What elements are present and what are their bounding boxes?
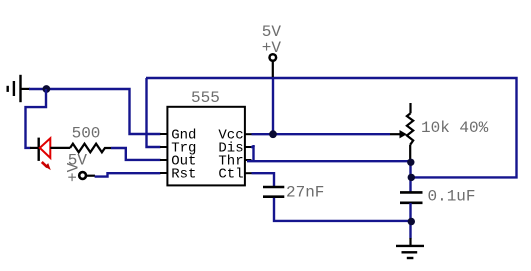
resistor R1 500 xyxy=(70,144,111,153)
svg-text:Rst: Rst xyxy=(171,167,196,183)
wire Thr to pot bottom xyxy=(247,160,408,162)
svg-text:10k 40%: 10k 40% xyxy=(421,119,489,137)
potentiometer R2 10k xyxy=(390,103,413,160)
voltage source terminal +V (top, 5V) xyxy=(270,54,277,77)
wire +V to Rst pin xyxy=(95,173,161,176)
wire Ctl to 27nF xyxy=(252,173,275,186)
svg-text:Ctl: Ctl xyxy=(218,167,243,183)
op-amp 555 IC U1 box xyxy=(160,107,252,186)
node Vcc junction dot xyxy=(269,130,277,138)
svg-text:555: 555 xyxy=(191,89,220,107)
wire 0.1uF bottom to ground xyxy=(409,203,411,239)
node bottom junction dot xyxy=(408,218,415,225)
svg-text:500: 500 xyxy=(72,124,101,142)
wire resistor to Out pin xyxy=(111,148,161,160)
node loop junction dot xyxy=(408,174,415,181)
wire 27nF bottom to ground node xyxy=(274,198,411,221)
svg-text:0.1uF: 0.1uF xyxy=(428,188,476,206)
wire Trg from top rail xyxy=(147,78,161,147)
node Thr junction dot xyxy=(407,159,414,166)
wire ground to Gnd pin xyxy=(29,89,161,134)
wire +V down to Vcc xyxy=(272,78,274,134)
wire Dis jog down xyxy=(251,147,254,161)
ground (bottom right) xyxy=(396,238,424,258)
voltage source terminal +V (bottom, 5V) xyxy=(79,172,95,179)
svg-text:27nF: 27nF xyxy=(286,183,324,201)
wire pot bottom chain xyxy=(409,160,411,192)
ground (left) xyxy=(8,75,30,102)
LED D1 (red, cathode left) xyxy=(30,138,70,171)
capacitor C1 27nF xyxy=(263,187,284,197)
wire ground dot down to LED xyxy=(26,89,47,148)
wire Vcc to potentiometer wiper xyxy=(252,133,391,135)
wire top rail / right loop xyxy=(146,78,517,177)
node A junction dot (ground net) xyxy=(43,85,51,93)
capacitor C2 0.1uF xyxy=(400,192,423,202)
